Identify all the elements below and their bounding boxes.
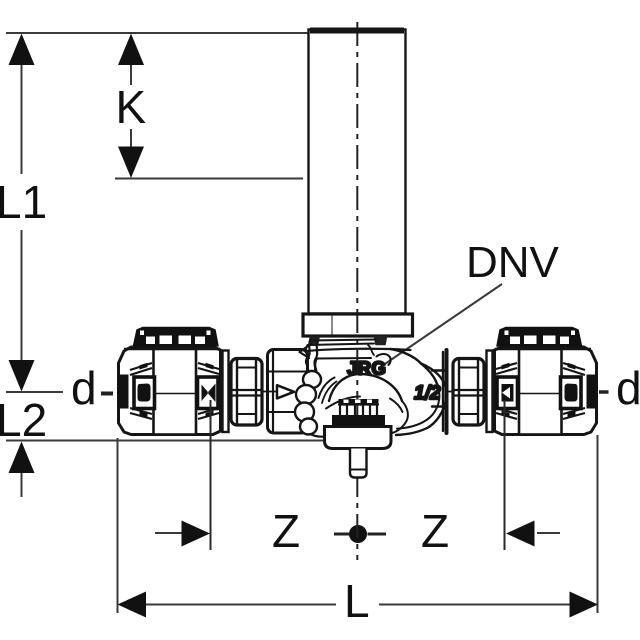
svg-text:L1: L1 (0, 176, 47, 228)
nut right chamfer lines (459, 367, 478, 369)
JRG boss left side (315, 359, 317, 371)
right port centerline dash (447, 391, 453, 393)
Z extension line left (211, 400, 505, 550)
drain cap knurl band (339, 399, 379, 405)
leader target swirl (377, 354, 391, 365)
left arm wavy line outer (307, 339, 311, 372)
svg-text:d: d (616, 362, 640, 414)
Z dimension tail right (537, 532, 560, 534)
crown slot 3 (179, 336, 192, 345)
right coupling nut (453, 351, 493, 433)
fitting crown (mirrored) (497, 328, 582, 347)
L arrow right (570, 592, 599, 618)
left push-fit fitting (118, 328, 221, 435)
left arm wavy line inner (314, 340, 318, 373)
fitting body outline (mirrored) (495, 347, 597, 435)
central band (154, 349, 197, 435)
left collar fold (300, 344, 312, 358)
fitting right black pad (mirrored) (587, 375, 598, 409)
dome left inner arc (319, 378, 335, 399)
L1 dimension line upper (21, 63, 23, 174)
central band (mirrored) (519, 349, 562, 435)
centerline vertical (101, 22, 609, 560)
bonnet left rope curve (306, 345, 308, 371)
bonnet ear left (310, 338, 319, 346)
tube (spindle extension pipe) (303, 30, 413, 337)
valve body assembly (253, 337, 453, 437)
L2 arrow up (9, 442, 35, 474)
drain boss (325, 427, 392, 449)
nut left face lines (236, 359, 238, 424)
L1 arrow up (9, 34, 35, 66)
right push-fit fitting (495, 328, 598, 435)
knurl slot 2 (355, 400, 361, 404)
left window stamp (138, 384, 151, 402)
Z dimension tail left (155, 532, 183, 534)
L dimension line left half (145, 604, 336, 606)
drain cap black skirt (333, 416, 384, 427)
K extension line (115, 178, 303, 180)
right lobe outline (396, 364, 446, 436)
d extension line left (6, 391, 63, 393)
dome shell extra arc (322, 382, 337, 404)
right window frame (198, 377, 219, 409)
fitting end strip left (223, 351, 229, 433)
svg-text:DNV: DNV (466, 238, 560, 287)
center dot side dashes (334, 533, 349, 536)
L1 arrow down (9, 360, 35, 392)
nut body left (231, 359, 262, 426)
top extension line (6, 32, 308, 34)
left window frame (134, 377, 155, 409)
svg-text:JRG: JRG (347, 358, 386, 379)
valve left port hex (268, 350, 308, 434)
left lump 4 (300, 419, 317, 435)
nut right face lines (458, 359, 460, 424)
bonnet curve right of centerline (368, 345, 374, 355)
nut body right (453, 359, 484, 426)
K arrow down (118, 147, 144, 179)
center point dot (349, 525, 367, 543)
left lump 2 (296, 385, 316, 404)
fitting shoulder line (124, 348, 220, 350)
outer window stamp (mirrored) (565, 384, 578, 402)
L extension line left (117, 438, 119, 613)
centerline horizontal left dash (101, 392, 113, 396)
left coupling nut (223, 351, 263, 433)
right window bowtie (202, 384, 216, 403)
fitting crown (134, 328, 219, 347)
knurl slot 1 (344, 400, 349, 404)
tube bottom flange (303, 314, 413, 336)
crown notch right (207, 331, 211, 336)
right panel bottom ribs (198, 408, 219, 419)
flow direction triangle (277, 385, 294, 398)
collar band lower line (308, 344, 374, 346)
L arrow left (118, 592, 147, 618)
DNV leader line (379, 284, 502, 368)
dome base arc right (390, 399, 403, 413)
L2 lower arrow tail (21, 470, 23, 497)
left panel bottom ribs (130, 408, 152, 419)
L dimension line right half (379, 604, 570, 606)
panel tick marks (140, 363, 214, 418)
drain cap facets (340, 405, 377, 416)
left lump 3 (295, 403, 314, 422)
svg-text:K: K (116, 81, 147, 133)
right panel top ribs (198, 363, 219, 374)
dome base arc left (326, 397, 360, 409)
right under-lobe arc (391, 401, 408, 434)
svg-text:L: L (344, 575, 370, 627)
body top line (307, 349, 411, 351)
tube top thick edge (310, 28, 404, 34)
central band midline (154, 393, 196, 395)
left lump 1 (303, 371, 321, 388)
svg-text:d: d (71, 362, 97, 414)
fitting shoulder line (mirrored) (495, 348, 591, 350)
nut left mid band (232, 389, 262, 391)
drain cap top (339, 403, 378, 405)
valve right port face (432, 350, 447, 433)
svg-text:1/2: 1/2 (414, 383, 441, 404)
inner window frame (mirrored) (497, 377, 518, 409)
crown notch left (140, 331, 144, 336)
drain valve assembly (325, 399, 392, 478)
bonnet ear right (375, 337, 387, 345)
port centerline dash (253, 391, 276, 393)
L1 dimension line lower (21, 230, 23, 363)
crown slot 4 (195, 337, 205, 345)
K dimension line upper (130, 63, 132, 85)
Z extension line right (504, 400, 506, 550)
flange divider (331, 314, 333, 336)
left panel top ribs (130, 363, 152, 375)
Z arrow left (506, 521, 535, 547)
panel tick marks (502, 363, 576, 418)
L2 extension line (6, 440, 325, 442)
outer window frame (mirrored) (561, 377, 582, 409)
fitting end strip right (487, 351, 493, 433)
dome arc over drain (329, 374, 402, 401)
inner window marking (mirrored) (502, 384, 514, 402)
K dimension line lower (130, 129, 132, 149)
nut left chamfer lines (237, 367, 256, 369)
panel ribs (mirrored) (563, 363, 585, 375)
K arrow up (118, 34, 144, 66)
right shoulder curve (391, 349, 440, 391)
fitting left black pad (118, 375, 129, 409)
svg-text:Z: Z (272, 505, 300, 557)
right lobe inner curve (397, 391, 439, 429)
svg-text:Z: Z (421, 505, 449, 557)
fitting body outline (119, 347, 221, 435)
crown slot 1 (146, 337, 155, 345)
crown slot 2 (160, 336, 173, 345)
JRG boss top line (317, 357, 371, 360)
centerline horizontal right dash (599, 390, 609, 394)
crown slots (mirrored) (560, 337, 569, 345)
L extension line right (597, 435, 599, 613)
drain stem line (350, 469, 367, 471)
collar band upper line (310, 340, 376, 341)
drain stem (350, 449, 367, 478)
nut right mid band (454, 389, 484, 391)
Z arrow right (182, 521, 211, 547)
knurl slot 3 (367, 400, 372, 404)
svg-text:L2: L2 (0, 394, 47, 446)
lobe bottom segment (310, 434, 325, 437)
